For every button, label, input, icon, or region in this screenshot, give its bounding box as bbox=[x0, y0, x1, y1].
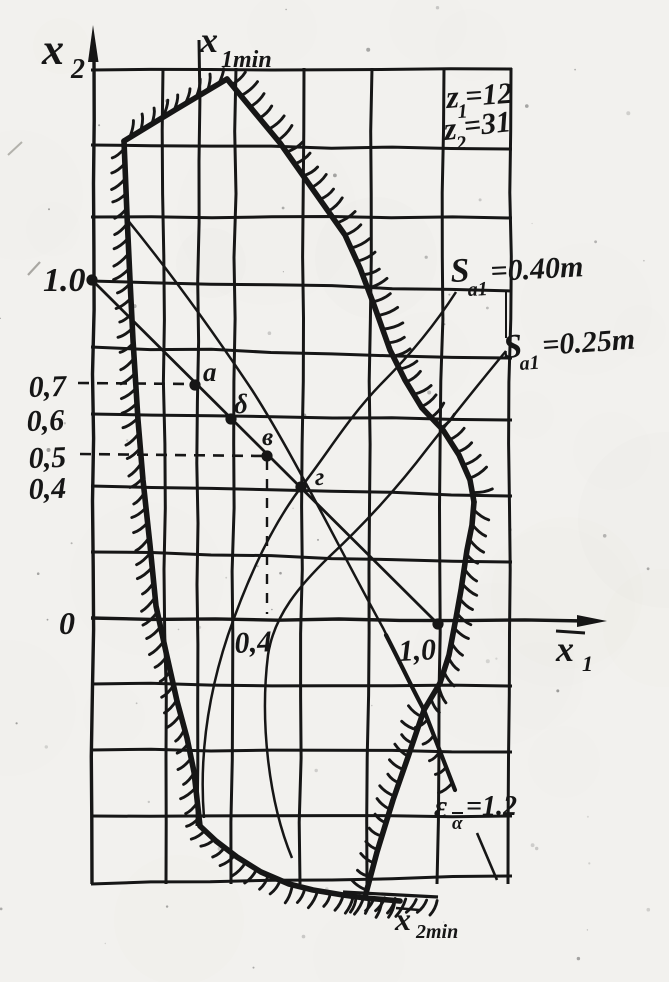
svg-text:0,6: 0,6 bbox=[26, 404, 65, 438]
svg-text:=1.2: =1.2 bbox=[466, 791, 517, 822]
blocking contour top-left upslope bbox=[124, 79, 227, 141]
x1min vertical marker line bbox=[197, 40, 200, 826]
x-axis arrowhead bbox=[577, 615, 607, 627]
dashed vertical line 0.4 bbox=[266, 460, 268, 614]
curve epsilon=1.2 upper thin part bbox=[126, 218, 388, 638]
svg-text:a1: a1 bbox=[519, 352, 540, 375]
y-axis arrowhead bbox=[88, 25, 99, 62]
curve Sa1=0.25m bbox=[265, 351, 506, 858]
blocking contour lower-right branch bbox=[365, 710, 424, 897]
svg-text:1min: 1min bbox=[221, 47, 272, 73]
curve epsilon=1.2 lower thin part bbox=[477, 833, 497, 880]
svg-text:ε: ε bbox=[434, 788, 447, 824]
blocking contour bottom edge bbox=[200, 826, 400, 901]
hatching top-left upslope bbox=[130, 121, 134, 138]
svg-text:x: x bbox=[394, 901, 411, 937]
svg-text:0,4: 0,4 bbox=[234, 625, 273, 660]
svg-text:a1: a1 bbox=[467, 278, 488, 301]
hatching x2min line bbox=[345, 896, 353, 913]
svg-text:1,0: 1,0 bbox=[398, 633, 437, 668]
hatching bottom edge bbox=[191, 830, 204, 839]
svg-text:δ: δ bbox=[234, 389, 248, 419]
design diagonal line bbox=[92, 280, 438, 624]
svg-text:0,4: 0,4 bbox=[28, 472, 67, 506]
grid vertical lines bbox=[162, 68, 166, 884]
axis label x1 bbox=[556, 631, 585, 633]
svg-text:1: 1 bbox=[582, 651, 593, 676]
blocking contour right side bbox=[424, 502, 474, 710]
svg-text:2min: 2min bbox=[415, 921, 458, 943]
dashed level line 0.7 bbox=[78, 383, 193, 384]
curve Sa1=0.40m bbox=[203, 292, 456, 818]
hatching epsilon thick part bbox=[416, 720, 428, 727]
faint scratch bbox=[8, 142, 22, 155]
svg-text:=0.40m: =0.40m bbox=[490, 250, 585, 288]
x2min limit line bbox=[343, 892, 438, 897]
svg-text:0,5: 0,5 bbox=[28, 441, 67, 475]
blocking contour left edge bbox=[124, 141, 200, 826]
curve epsilon=1.2 thick middle part bbox=[386, 635, 455, 790]
diagonal points bbox=[86, 274, 97, 285]
svg-text:0,7: 0,7 bbox=[28, 370, 68, 404]
svg-text:a: a bbox=[203, 357, 217, 387]
y-axis x2 bbox=[91, 56, 94, 884]
svg-text:2: 2 bbox=[70, 54, 85, 85]
dashed level line 0.5 bbox=[80, 454, 264, 456]
hatching lower-right branch bbox=[409, 706, 422, 717]
svg-text:α: α bbox=[452, 813, 463, 834]
scan specks bbox=[178, 629, 180, 631]
svg-text:=31: =31 bbox=[462, 105, 512, 143]
svg-text:г: г bbox=[315, 464, 324, 491]
label leader Sa1=0.25m bbox=[505, 292, 507, 338]
svg-text:x: x bbox=[199, 20, 218, 60]
svg-text:x: x bbox=[41, 25, 64, 74]
svg-text:x: x bbox=[555, 629, 574, 669]
svg-text:в: в bbox=[262, 424, 273, 451]
svg-text:1.0: 1.0 bbox=[43, 262, 86, 299]
hatching left edge bbox=[112, 149, 124, 158]
x-axis x1 bbox=[91, 618, 586, 621]
svg-text:=0.25m: =0.25m bbox=[541, 323, 636, 362]
blocking contour right descent bbox=[227, 79, 474, 502]
svg-text:0: 0 bbox=[59, 605, 75, 641]
hatching right side bbox=[473, 510, 488, 520]
grid horizontal lines bbox=[91, 69, 512, 70]
hatching right descent bbox=[232, 72, 246, 84]
